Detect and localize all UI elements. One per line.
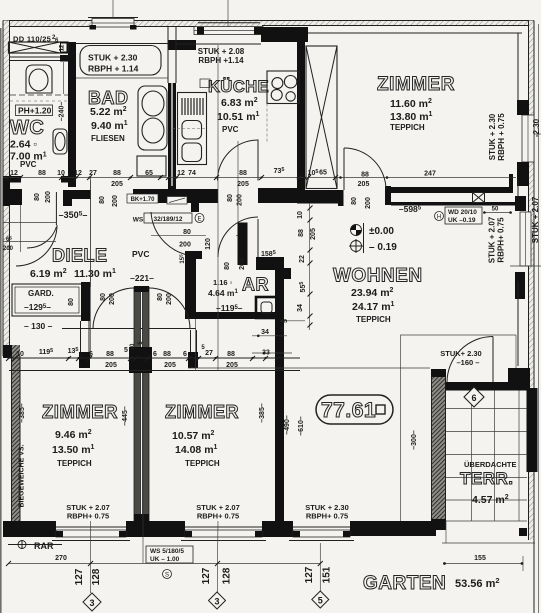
svg-text:RBPH + 1.14: RBPH + 1.14 bbox=[88, 64, 139, 74]
symbol: level mark 0.00 bbox=[351, 225, 395, 238]
dimension: 66.5/200 left edge bbox=[3, 236, 14, 253]
window: top KUECHE window bbox=[168, 0, 263, 50]
svg-text:UK –0.19: UK –0.19 bbox=[448, 217, 476, 224]
label: STUK vertical right ZIMMER bbox=[488, 113, 506, 161]
label: stadium STUK BAD bbox=[80, 46, 161, 76]
wall: AR bottom bbox=[185, 312, 284, 319]
svg-text:PVC: PVC bbox=[222, 125, 239, 134]
wall: top exterior double line right part bbox=[262, 21, 534, 26]
svg-text:TEPPICH: TEPPICH bbox=[185, 459, 220, 468]
window: bottom ZIMMER1 bbox=[52, 527, 130, 541]
dimension: corridor door2 rotated 80/200 bbox=[157, 293, 173, 305]
svg-text:WS 5/180/5: WS 5/180/5 bbox=[150, 548, 184, 555]
label: DIELE bbox=[30, 246, 149, 281]
svg-text:5.22 m2: 5.22 m2 bbox=[90, 106, 127, 118]
svg-text:128: 128 bbox=[222, 567, 233, 584]
svg-text:6: 6 bbox=[183, 351, 187, 358]
svg-text:127: 127 bbox=[201, 567, 212, 584]
svg-text:205: 205 bbox=[111, 181, 123, 188]
wall: ZIMMER south pier left bbox=[297, 174, 526, 206]
svg-text:205: 205 bbox=[164, 362, 176, 369]
svg-text:TERR.: TERR. bbox=[460, 469, 514, 488]
svg-text:12: 12 bbox=[10, 170, 18, 177]
label: WD box with circled H bbox=[435, 207, 483, 224]
svg-text:270: 270 bbox=[55, 555, 67, 562]
svg-text:200: 200 bbox=[3, 246, 14, 252]
dimension: AR door rotated 80/200 bbox=[224, 250, 276, 270]
svg-text:80: 80 bbox=[99, 196, 106, 204]
line: terrace tile grid bbox=[446, 391, 527, 522]
svg-text:80: 80 bbox=[68, 298, 75, 306]
svg-text:5: 5 bbox=[124, 347, 128, 354]
dimension: 50 below wall bbox=[483, 207, 512, 214]
wall: KUECHE south right segment bbox=[258, 188, 300, 203]
svg-text:WD 20/10: WD 20/10 bbox=[448, 209, 477, 216]
line: small vertical dim in WC bbox=[63, 62, 65, 94]
wall: chain posts bbox=[79, 352, 90, 368]
svg-text:200: 200 bbox=[239, 258, 246, 270]
svg-text:WOHNEN: WOHNEN bbox=[333, 266, 423, 287]
svg-text:88: 88 bbox=[227, 351, 235, 358]
wall: BAD/KUECHE separation bbox=[168, 27, 176, 190]
svg-text:80: 80 bbox=[224, 262, 231, 270]
svg-text:88: 88 bbox=[106, 351, 114, 358]
svg-text:STUK + 2.07: STUK + 2.07 bbox=[488, 216, 497, 263]
dimension: 270 bottom left bbox=[8, 555, 320, 564]
svg-text:151: 151 bbox=[322, 566, 333, 583]
svg-text:1.16 ▫: 1.16 ▫ bbox=[213, 278, 233, 287]
fixture: kitchen right counter with sink and stove bbox=[267, 71, 299, 142]
wall: black band above ZIMMER NW corner bbox=[261, 27, 308, 42]
wall: corner piece NE of terrace bbox=[508, 368, 530, 382]
svg-text:RAR: RAR bbox=[34, 541, 54, 551]
wall: small squares right bbox=[518, 383, 527, 536]
fixture: GARD closet double box bbox=[12, 284, 82, 316]
svg-text:STUK + 2.08: STUK + 2.08 bbox=[198, 47, 245, 56]
svg-text:2.64 ▫: 2.64 ▫ bbox=[10, 139, 37, 151]
label: left edge vertical texts bbox=[19, 403, 27, 507]
line: chain wall lines bbox=[9, 358, 300, 371]
svg-text:–385–: –385– bbox=[19, 403, 26, 423]
label: KUECHE bbox=[198, 47, 269, 134]
svg-text:–3505–: –3505– bbox=[59, 210, 88, 220]
svg-text:200: 200 bbox=[237, 194, 244, 206]
svg-text:4.64 m1: 4.64 m1 bbox=[208, 288, 238, 298]
svg-text:10.57 m2: 10.57 m2 bbox=[172, 430, 215, 442]
wall: thin line north of bottom rooms bbox=[62, 328, 196, 330]
line: level value separator bbox=[363, 223, 365, 253]
svg-text:10: 10 bbox=[297, 211, 304, 219]
svg-text:AR: AR bbox=[242, 275, 269, 295]
dimension: 34/5 near ZIMMER2 NE bbox=[188, 327, 430, 369]
svg-text:–1295–: –1295– bbox=[24, 302, 51, 312]
svg-text:RBPH+ 0.75: RBPH+ 0.75 bbox=[197, 512, 239, 521]
line: BAD wall face and soffit bbox=[76, 44, 168, 79]
wall: divider between bottom rooms twin strips bbox=[134, 286, 149, 521]
dimension: ticks bottom line y563 bbox=[6, 561, 323, 566]
svg-text:80: 80 bbox=[34, 193, 41, 201]
svg-text:205: 205 bbox=[237, 181, 249, 188]
svg-text:11.60 m2: 11.60 m2 bbox=[390, 98, 432, 110]
svg-text:E: E bbox=[197, 217, 201, 223]
svg-text:80: 80 bbox=[227, 194, 234, 202]
svg-text:32/189/12: 32/189/12 bbox=[154, 216, 183, 223]
svg-text:ZIMMER: ZIMMER bbox=[377, 74, 455, 95]
svg-text:88: 88 bbox=[361, 172, 369, 179]
symbol: chimney box at AR corner bbox=[256, 297, 277, 318]
svg-text:127: 127 bbox=[74, 568, 85, 585]
label: AR bbox=[208, 275, 269, 314]
svg-text:BIEGEWEICHE VS.: BIEGEWEICHE VS. bbox=[19, 444, 26, 507]
svg-text:–490–: –490– bbox=[284, 415, 291, 435]
svg-text:53.56 m2: 53.56 m2 bbox=[455, 576, 500, 590]
svg-text:BAD: BAD bbox=[88, 88, 129, 108]
svg-text:6: 6 bbox=[471, 393, 476, 403]
wall: AR top right and hinge side bbox=[256, 257, 284, 270]
svg-text:200: 200 bbox=[45, 191, 52, 203]
wall: terrace right black bbox=[527, 388, 538, 472]
label: WOHNEN bbox=[333, 266, 423, 325]
svg-text:–240–: –240– bbox=[58, 102, 65, 122]
svg-text:33: 33 bbox=[262, 350, 270, 357]
line: terrace roof outline bbox=[401, 335, 517, 521]
svg-text:6.83 m2: 6.83 m2 bbox=[221, 97, 258, 109]
wall: AR/WOHNEN vertical bbox=[275, 263, 284, 521]
svg-text:UK – 1.00: UK – 1.00 bbox=[150, 556, 180, 563]
dimension: tick dots chain y177 bbox=[7, 176, 336, 178]
svg-text:205: 205 bbox=[358, 181, 370, 188]
svg-text:–160 –: –160 – bbox=[457, 358, 480, 367]
svg-text:RBPH+ 0.75: RBPH+ 0.75 bbox=[306, 512, 348, 521]
wall: AR top left piece bbox=[185, 251, 202, 319]
door: ZIMMER top right leaf and arc bbox=[344, 148, 386, 190]
door: entry leaf and double arc bbox=[3, 192, 57, 266]
label: STUK bottom WOHNEN bbox=[305, 503, 349, 521]
wall: GARD wall thin extension bbox=[81, 321, 90, 352]
wall: BAD/KUECHE south segment bbox=[133, 189, 218, 203]
svg-text:WS: WS bbox=[133, 217, 144, 224]
door: WS door arc bbox=[151, 212, 196, 256]
svg-text:–445–: –445– bbox=[122, 406, 129, 426]
dimension: 155 garden bbox=[442, 543, 535, 571]
svg-text:80: 80 bbox=[351, 197, 358, 205]
label: BK+1.70 box bbox=[127, 194, 187, 204]
dimension: corridor door1 rotated 80/200 bbox=[100, 293, 116, 305]
dimension: right chain at x310 bbox=[282, 203, 317, 330]
svg-text:STUK + 2.30: STUK + 2.30 bbox=[88, 53, 138, 63]
svg-text:80: 80 bbox=[183, 229, 191, 236]
svg-text:BK+1.70: BK+1.70 bbox=[131, 197, 156, 203]
dimension: chain y358 numbers bbox=[16, 341, 270, 369]
window: right ZIMMER window bbox=[517, 100, 541, 186]
label: WS 5/180/5 box with circled S bbox=[146, 546, 193, 579]
svg-text:ZIMMER: ZIMMER bbox=[42, 401, 118, 422]
line: faint vertical x143 bbox=[142, 373, 144, 563]
svg-text:34: 34 bbox=[297, 304, 304, 312]
svg-text:128: 128 bbox=[91, 568, 102, 585]
svg-text:STUK + 2.07: STUK + 2.07 bbox=[531, 196, 540, 243]
svg-text:10: 10 bbox=[130, 343, 136, 350]
svg-text:RBPH+ 0.75: RBPH+ 0.75 bbox=[497, 217, 506, 263]
door: ZIMMER1 arc bbox=[93, 288, 134, 329]
svg-text:200: 200 bbox=[166, 293, 173, 305]
label: far right clipped STUK bbox=[531, 118, 541, 243]
svg-text:DIELE: DIELE bbox=[52, 246, 108, 266]
svg-text:FLIESEN: FLIESEN bbox=[91, 134, 125, 143]
svg-text:24.17 m1: 24.17 m1 bbox=[352, 301, 395, 313]
label: stadium 77.61 bbox=[316, 395, 393, 424]
window: bottom WOHNEN bbox=[289, 527, 354, 541]
door: KUECHE arc and leaf bbox=[218, 140, 259, 226]
svg-text:10.51 m1: 10.51 m1 bbox=[217, 111, 260, 123]
wall: right exterior double line bbox=[529, 21, 539, 613]
svg-text:11.30 m1: 11.30 m1 bbox=[74, 268, 116, 280]
svg-text:RBPH+ 0.75: RBPH+ 0.75 bbox=[67, 512, 109, 521]
svg-text:12: 12 bbox=[60, 44, 66, 51]
label: STUK vertical right WOHNEN bbox=[488, 216, 506, 263]
window: bottom ZIMMER2 bbox=[181, 527, 266, 541]
svg-text:KÜCHE: KÜCHE bbox=[208, 77, 269, 96]
wall: WC south with door opening bbox=[3, 176, 76, 183]
dimension: 80/200 of WS door bbox=[151, 229, 242, 249]
svg-text:PVC: PVC bbox=[20, 160, 37, 169]
wall: WC top thin bbox=[10, 55, 69, 62]
svg-text:205: 205 bbox=[105, 362, 117, 369]
svg-text:200: 200 bbox=[365, 197, 372, 209]
svg-text:6: 6 bbox=[153, 351, 157, 358]
svg-text:STUK + 2.30: STUK + 2.30 bbox=[488, 113, 497, 160]
dimension: BAD door rotated bbox=[99, 195, 119, 207]
svg-text:WC: WC bbox=[10, 117, 44, 139]
scan edge left bbox=[0, 28, 2, 613]
svg-text:STUK+ 2.30: STUK+ 2.30 bbox=[440, 349, 481, 358]
svg-text:5: 5 bbox=[282, 319, 289, 323]
fixture: washing machine bbox=[137, 156, 166, 176]
svg-text:65: 65 bbox=[319, 170, 327, 177]
svg-text:–610–: –610– bbox=[298, 416, 305, 436]
svg-text:3: 3 bbox=[214, 597, 219, 607]
svg-text:127: 127 bbox=[304, 566, 315, 583]
svg-text:5: 5 bbox=[318, 596, 323, 606]
label: WS box with circled E bbox=[133, 213, 204, 224]
svg-text:– 130 –: – 130 – bbox=[24, 321, 53, 331]
svg-text:PVC: PVC bbox=[132, 249, 149, 259]
label: STUK bottom room1 bbox=[66, 503, 110, 521]
line: faint vertical x195.5 bbox=[195, 319, 197, 371]
svg-text:88: 88 bbox=[113, 170, 121, 177]
line: auxiliary chain verticals bbox=[91, 45, 447, 563]
svg-text:34: 34 bbox=[261, 329, 269, 336]
dimension: rotated verticals bottom rooms bbox=[122, 403, 418, 450]
label: DD 110/25 bbox=[13, 35, 59, 45]
svg-text:±0.00: ±0.00 bbox=[369, 226, 394, 237]
wall: post below bbox=[191, 203, 199, 212]
wall: left exterior double line bbox=[3, 21, 20, 522]
svg-text:247: 247 bbox=[424, 171, 436, 178]
window: top BAD window bbox=[88, 0, 138, 30]
svg-text:50: 50 bbox=[492, 207, 499, 213]
svg-text:200: 200 bbox=[179, 242, 191, 249]
wall: entry blocks bbox=[3, 177, 22, 206]
svg-text:TEPPICH: TEPPICH bbox=[390, 123, 425, 132]
wall: terrace north black band bbox=[446, 382, 531, 391]
svg-text:65: 65 bbox=[145, 170, 153, 177]
fixture: bath double basin unit bbox=[138, 86, 167, 150]
wall: WOHNEN/terrace hatched double wall bbox=[431, 369, 446, 530]
symbol: RAR mark bbox=[8, 540, 62, 551]
symbol: level mark -0.19 bbox=[349, 239, 397, 253]
svg-text:3: 3 bbox=[89, 598, 94, 608]
dimension: ticks right chain x310 bbox=[308, 206, 313, 328]
fixture: WC hand basin bbox=[53, 129, 67, 154]
svg-text:RBPH + 0.75: RBPH + 0.75 bbox=[497, 113, 506, 161]
dimension: tick marks chain y177 bbox=[6, 175, 338, 180]
label: ZIMMER top right bbox=[377, 74, 455, 132]
svg-text:9.40 m1: 9.40 m1 bbox=[91, 120, 128, 132]
wall: small piece right of AR bbox=[284, 268, 291, 279]
svg-text:4.57 m2: 4.57 m2 bbox=[472, 494, 509, 506]
wall: KUECHE ceiling face line bbox=[176, 43, 261, 45]
svg-text:200: 200 bbox=[109, 293, 116, 305]
svg-text:77.61: 77.61 bbox=[321, 399, 376, 422]
svg-text:88: 88 bbox=[38, 170, 46, 177]
svg-text:–300–: –300– bbox=[411, 430, 418, 450]
wall: right of GARD bbox=[81, 282, 90, 321]
svg-text:205: 205 bbox=[310, 228, 317, 240]
svg-text:– 0.19: – 0.19 bbox=[369, 242, 397, 253]
wall: divider blob at chain bbox=[129, 347, 152, 373]
svg-text:88: 88 bbox=[163, 351, 171, 358]
svg-text:TEPPICH: TEPPICH bbox=[57, 459, 92, 468]
fixture: wardrobe with cross (top right) bbox=[306, 46, 337, 189]
svg-text:200: 200 bbox=[112, 195, 119, 207]
door: AR leaf and arc bbox=[218, 217, 258, 257]
svg-text:80: 80 bbox=[100, 293, 107, 301]
svg-text:5: 5 bbox=[280, 327, 284, 334]
window: right WOHNEN window bbox=[510, 196, 541, 299]
svg-text:23.94 m2: 23.94 m2 bbox=[351, 287, 394, 299]
fixture: kitchen left counter bbox=[172, 79, 210, 165]
dimension: GARD vertical line bbox=[90, 177, 92, 287]
dimension: 34/5 lines below AR bbox=[252, 320, 305, 355]
svg-text:9.46 m2: 9.46 m2 bbox=[55, 429, 92, 441]
wall: ZIMMER interior top face bbox=[308, 32, 522, 34]
svg-text:120: 120 bbox=[205, 238, 212, 250]
wall: stub between corridor and WOHNEN bbox=[238, 223, 248, 266]
svg-text:155: 155 bbox=[474, 555, 486, 562]
svg-text:ÜBERDACHTE: ÜBERDACHTE bbox=[464, 460, 517, 469]
svg-text:13.50 m1: 13.50 m1 bbox=[52, 444, 95, 456]
wall: bottom black segments bbox=[3, 521, 436, 537]
svg-text:S: S bbox=[165, 573, 169, 579]
svg-text:27: 27 bbox=[205, 350, 213, 357]
wall: shaft box with cross bbox=[9, 42, 69, 53]
dimension: bottom rotated 127/128 pairs with diamonds bbox=[74, 564, 102, 612]
label: UEBERDACHTE TERR bbox=[460, 460, 517, 506]
door: ZIMMER2 arc bbox=[149, 288, 197, 352]
dimension: ZIMMER top door bbox=[351, 171, 436, 215]
label: GARTEN bbox=[363, 573, 500, 594]
label: WC bbox=[10, 105, 53, 169]
svg-text:H: H bbox=[437, 215, 441, 221]
wall: KUECHE/ZIMMER separation bbox=[297, 39, 305, 191]
svg-text:88: 88 bbox=[298, 229, 305, 237]
svg-text:74: 74 bbox=[188, 170, 196, 177]
dimension: WC door rotated bbox=[34, 191, 52, 203]
svg-text:GARD.: GARD. bbox=[28, 289, 54, 298]
svg-text:14.08 m1: 14.08 m1 bbox=[175, 444, 218, 456]
svg-text:PH+1.20: PH+1.20 bbox=[18, 106, 52, 116]
label: ZIMMER bottom middle bbox=[165, 402, 239, 468]
wall: BAD south T piece bbox=[63, 190, 91, 206]
svg-text:22: 22 bbox=[299, 255, 306, 263]
wall: WC/BAD separation bbox=[68, 42, 76, 187]
label: STUK bottom room2 bbox=[196, 503, 240, 521]
svg-text:GARTEN: GARTEN bbox=[363, 573, 446, 594]
symbol: diamond 6 terrace bbox=[464, 387, 484, 407]
svg-text:DD 110/25: DD 110/25 bbox=[13, 35, 51, 44]
door: terrace door leaf and arc hinge right bbox=[447, 337, 493, 383]
svg-text:6.19 m2: 6.19 m2 bbox=[30, 268, 67, 280]
wall: ZIMMER interior right face bbox=[517, 33, 519, 366]
wall: top exterior double line left part bbox=[3, 21, 262, 27]
svg-text:–221–: –221– bbox=[130, 273, 154, 283]
svg-text:RBPH +1.14: RBPH +1.14 bbox=[198, 56, 244, 65]
label: ZIMMER bottom left bbox=[42, 401, 118, 468]
svg-text:10: 10 bbox=[16, 351, 24, 358]
svg-text:-2.30: -2.30 bbox=[532, 118, 541, 137]
svg-text:–1195–: –1195– bbox=[216, 303, 243, 313]
svg-text:TEPPICH: TEPPICH bbox=[356, 315, 391, 324]
label: GARD bbox=[24, 289, 54, 331]
svg-text:13.80 m1: 13.80 m1 bbox=[390, 111, 433, 123]
dimension: tick marks chain y358 bbox=[6, 356, 280, 361]
svg-text:–385–: –385– bbox=[259, 403, 266, 423]
line: dashed in WC bbox=[10, 94, 68, 96]
dimension: chain line y177 bbox=[3, 167, 516, 188]
symbol: chimney X box in wall cavity bbox=[473, 193, 485, 203]
svg-text:88: 88 bbox=[239, 170, 247, 177]
svg-text:ZIMMER: ZIMMER bbox=[165, 402, 239, 422]
fixture: toilet bbox=[26, 65, 52, 93]
svg-text:80: 80 bbox=[157, 293, 164, 301]
label: STUK near terrace door bbox=[440, 349, 481, 367]
label: BAD bbox=[88, 88, 129, 143]
